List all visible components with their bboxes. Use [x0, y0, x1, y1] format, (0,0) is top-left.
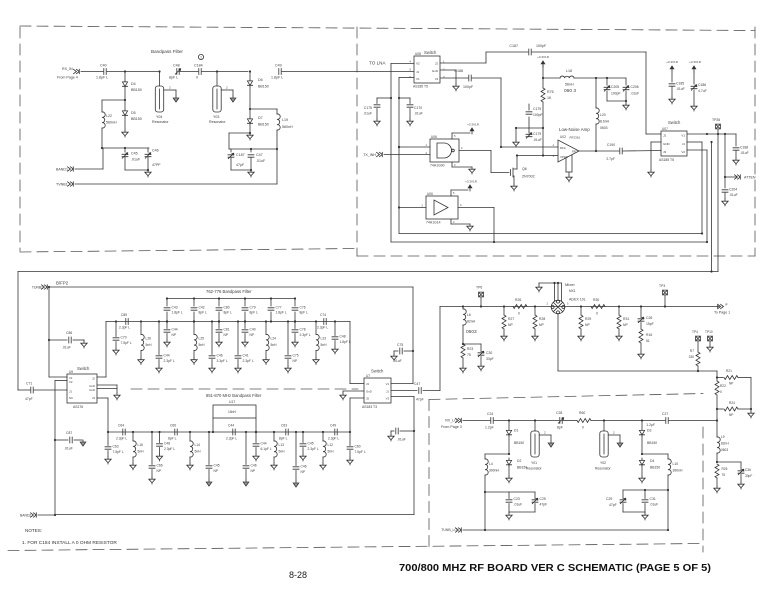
- capacitor C79 8pF L top coupling: [244, 299, 246, 307]
- svg-text:100pF: 100pF: [463, 85, 474, 89]
- svg-text:C185: C185: [676, 82, 684, 86]
- wire J1 branch down to IF return line: [710, 141, 712, 143]
- svg-text:R31: R31: [623, 317, 629, 321]
- svg-text:VPDN: VPDN: [560, 155, 568, 159]
- capacitor C63 7.5pF L shunt: [107, 432, 109, 446]
- svg-text:C46: C46: [301, 465, 307, 469]
- svg-text:47pF: 47pF: [416, 398, 424, 402]
- svg-text:C170: C170: [414, 106, 422, 110]
- svg-text:NP: NP: [623, 323, 628, 327]
- svg-text:R24: R24: [729, 401, 735, 405]
- svg-text:NP: NP: [729, 382, 733, 386]
- svg-text:330: 330: [689, 355, 695, 359]
- svg-text:3.3pF L: 3.3pF L: [217, 359, 228, 363]
- svg-text:BB150: BB150: [258, 123, 269, 127]
- svg-text:J3: J3: [92, 396, 95, 400]
- ground below C23: [508, 512, 510, 513]
- svg-text:V1: V1: [681, 134, 685, 138]
- svg-text:NP: NP: [214, 469, 219, 473]
- capacitor C74 2.3pF series: [324, 319, 326, 325]
- resistor R76 1K: [542, 78, 544, 88]
- svg-text:1.8pF L: 1.8pF L: [172, 311, 183, 315]
- svg-text:BB150: BB150: [258, 85, 269, 89]
- ground below C175: [374, 119, 380, 126]
- wire L22 to C45 node: [101, 128, 103, 148]
- svg-text:C87: C87: [66, 431, 72, 435]
- svg-text:75: 75: [467, 353, 471, 357]
- svg-text:47pF: 47pF: [236, 163, 245, 167]
- dashed border: left edge of LO section: [428, 400, 430, 548]
- svg-text:.01uF: .01uF: [514, 503, 523, 507]
- svg-text:RF2361: RF2361: [570, 136, 581, 140]
- svg-text:.01uF: .01uF: [631, 92, 640, 96]
- svg-text:C45: C45: [214, 464, 220, 468]
- capacitors C205 100pF and C206 .01uF at L18 output: [596, 77, 626, 79]
- inductor L9 82nH 0603: [716, 421, 718, 438]
- capacitor C27 1.2pF: [666, 418, 668, 424]
- capacitor C66 8pF L series: [175, 429, 177, 435]
- wire D6 to node: [249, 87, 251, 109]
- svg-text:RX_IN: RX_IN: [62, 67, 73, 71]
- svg-text:C44: C44: [172, 328, 178, 332]
- svg-text:47pF: 47pF: [25, 397, 33, 401]
- wire LO cap cluster 2 bottom: [623, 511, 645, 513]
- svg-text:C48: C48: [340, 335, 346, 339]
- ground left of C86: [388, 434, 394, 441]
- inductor L23 5nH shunt: [315, 322, 317, 335]
- svg-text:.01uF: .01uF: [729, 193, 738, 197]
- capacitor C189 .01uF at V1: [735, 134, 737, 146]
- pin 2 of Y01 to ground: [539, 434, 551, 436]
- switch U08 AS185 T5: [414, 56, 440, 83]
- wire C187 to U07 pin J2: [532, 51, 646, 53]
- svg-text:L22: L22: [106, 114, 112, 118]
- capacitor C24 1.2pF: [491, 418, 493, 424]
- wire U07 V1 output: [687, 133, 736, 135]
- svg-text:1: 1: [200, 56, 202, 60]
- svg-text:J1: J1: [682, 142, 686, 146]
- svg-text:TP6: TP6: [476, 286, 482, 290]
- svg-text:0: 0: [720, 390, 722, 394]
- svg-text:GnD: GnD: [432, 69, 439, 73]
- svg-text:8pF L: 8pF L: [279, 437, 288, 441]
- dashed border: left edge of bandpass filter section: [19, 27, 21, 251]
- capacitor C204 .01uF on ATTEN node: [724, 177, 726, 188]
- svg-text:C44: C44: [228, 424, 234, 428]
- ground below D5: [124, 117, 126, 130]
- ground at mixer top pins: [536, 285, 542, 292]
- svg-text:U17: U17: [229, 400, 235, 404]
- wire U08 pin J2 to C187 feed line: [440, 62, 486, 64]
- svg-text:2.3pF L: 2.3pF L: [226, 437, 237, 441]
- capacitor C175 .01uF: [390, 97, 392, 99]
- wire 762 filter top coupling rail: [167, 298, 295, 300]
- svg-text:AS183 T3: AS183 T3: [362, 405, 377, 409]
- wire L4 node to TUNB_LO rail: [484, 492, 486, 530]
- svg-text:.01uF: .01uF: [533, 138, 542, 142]
- svg-text:U06: U06: [427, 192, 433, 196]
- svg-text:2N7002: 2N7002: [522, 175, 535, 179]
- svg-text:0: 0: [518, 312, 520, 316]
- svg-text:IF: IF: [725, 303, 728, 307]
- resistor R24 NP: [717, 408, 723, 410]
- svg-text:1.2pF: 1.2pF: [646, 423, 655, 427]
- svg-text:L9: L9: [721, 435, 725, 439]
- ground below R23: [460, 366, 466, 373]
- capacitor C45 .01uF: [124, 148, 126, 152]
- svg-text:V2: V2: [681, 150, 685, 154]
- svg-text:390nH: 390nH: [489, 469, 500, 473]
- svg-text:J1: J1: [386, 390, 389, 394]
- capacitor C71 47pF input: [18, 389, 30, 391]
- capacitor C85 2.3pF series: [126, 319, 128, 325]
- svg-text:82nH: 82nH: [721, 442, 729, 446]
- svg-text:J2: J2: [435, 62, 439, 66]
- resonator Y03: [216, 70, 218, 72]
- wire BAND1 riser to C45 rail: [102, 148, 104, 169]
- svg-text:2.3pF L: 2.3pF L: [164, 359, 175, 363]
- diode D4 BB150: [639, 460, 644, 467]
- svg-text:C187: C187: [236, 153, 245, 157]
- svg-text:J2: J2: [663, 134, 667, 138]
- svg-text:BAND2: BAND2: [20, 514, 31, 518]
- svg-text:MX1: MX1: [569, 289, 576, 293]
- svg-text:74H1G00: 74H1G00: [430, 164, 445, 168]
- svg-text:7.5pF L: 7.5pF L: [355, 450, 366, 454]
- svg-text:060 3: 060 3: [564, 88, 576, 94]
- capacitor C188 100pF: [440, 77, 468, 79]
- capacitor C75 NP shunt: [287, 322, 289, 355]
- svg-text:4.7uF: 4.7uF: [698, 89, 707, 93]
- svg-text:C49: C49: [330, 424, 336, 428]
- svg-text:.01uF: .01uF: [131, 158, 141, 162]
- svg-text:C45: C45: [131, 152, 138, 156]
- resistor R22 0: [716, 378, 718, 382]
- wire D4 cathode to node: [124, 88, 126, 100]
- svg-text:GnD: GnD: [89, 388, 95, 392]
- transistor Q6 2N7002 MOSFET: [511, 168, 518, 177]
- ground below C47: [248, 170, 254, 177]
- svg-text:5nH: 5nH: [195, 450, 202, 454]
- svg-text:NP: NP: [251, 469, 256, 473]
- svg-text:Resonator: Resonator: [595, 467, 612, 471]
- svg-text:NP: NP: [250, 333, 255, 337]
- svg-text:82nH: 82nH: [467, 320, 476, 324]
- svg-text:C46: C46: [251, 464, 257, 468]
- wire rail to LNA section switch U08: [282, 71, 414, 73]
- dashed border: bottom edge of bandpass filter section: [20, 249, 357, 253]
- svg-text:C77: C77: [276, 306, 282, 310]
- wire TVNB1 long run: [75, 183, 277, 185]
- supply pin 5 of U06 to +3.3V1R: [451, 133, 453, 139]
- svg-text:D7: D7: [258, 116, 263, 120]
- svg-text:C179: C179: [533, 107, 541, 111]
- capacitor C78 2.3pF L shunt: [294, 322, 296, 329]
- svg-text:Y03: Y03: [213, 115, 219, 119]
- svg-text:5nH: 5nH: [321, 343, 328, 347]
- svg-text:C31: C31: [650, 497, 656, 501]
- wire L10 node to TUNB_LO rail: [667, 490, 669, 530]
- switch U9 AS176: [67, 374, 97, 403]
- svg-text:C47: C47: [256, 153, 263, 157]
- svg-text:C86: C86: [66, 331, 72, 335]
- svg-text:J3: J3: [435, 77, 439, 81]
- dashed border: right edge of LNA section: [754, 27, 756, 256]
- wire TUNB2 down to switch U9 V1: [48, 287, 50, 377]
- ground at U7 GnD pin: [343, 390, 364, 392]
- capacitor C40 NP shunt: [244, 322, 246, 329]
- svg-text:.01uF: .01uF: [64, 447, 73, 451]
- svg-text:C44: C44: [164, 354, 170, 358]
- svg-text:2.3pF L: 2.3pF L: [243, 359, 254, 363]
- ground below R21/R24 node: [750, 409, 752, 411]
- capacitor C40: [104, 69, 106, 75]
- svg-text:74H1G14: 74H1G14: [426, 221, 441, 225]
- capacitor C64 2.3pF L series: [123, 429, 125, 435]
- svg-text:C44: C44: [261, 442, 267, 446]
- svg-text:RX_LO: RX_LO: [445, 419, 457, 423]
- inductor L16 5nH shunt: [132, 432, 134, 441]
- capacitor C45 NP shunt with long ground tail: [208, 432, 210, 465]
- wire U9 V1 from TUNB2: [49, 376, 67, 378]
- wire U07 pin J2 feed: [646, 133, 661, 135]
- capacitor C47 47pF output: [391, 390, 417, 392]
- ground below C204: [722, 199, 728, 206]
- svg-text:+3.3V1R: +3.3V1R: [465, 180, 478, 184]
- svg-text:.01uF: .01uF: [740, 151, 749, 155]
- svg-text:C206: C206: [631, 85, 639, 89]
- NAND gate U06 74H1G00: [430, 139, 459, 162]
- wire U08 pin V1 control drop: [399, 77, 414, 79]
- svg-text:C71: C71: [26, 382, 32, 386]
- svg-text:C26: C26: [646, 316, 652, 320]
- svg-text:C24: C24: [487, 412, 493, 416]
- svg-text:TP3: TP3: [659, 284, 665, 288]
- capacitor C49 1.8pF: [279, 69, 281, 75]
- wire LO rail C27 to L9 node: [669, 420, 717, 422]
- svg-text:U06: U06: [431, 135, 437, 139]
- dashed border: top edge of LO section: [429, 394, 703, 400]
- wire cluster riser to D7 node: [228, 133, 230, 149]
- svg-text:TP4: TP4: [692, 330, 698, 334]
- svg-text:1.8pF L: 1.8pF L: [96, 76, 108, 80]
- svg-text:R76: R76: [547, 90, 554, 94]
- svg-text:R60: R60: [579, 411, 585, 415]
- wire LO cap cluster 2 top: [623, 489, 668, 491]
- capacitor C45 2.3pF L shunt: [302, 432, 304, 443]
- diode D6 BB150: [249, 70, 251, 72]
- dashed border: bottom edge of sheet sections: [8, 544, 703, 551]
- wire bottom of C45/C46: [125, 169, 148, 171]
- capacitor C187 47pF variable: [230, 149, 232, 152]
- inductor L4 390nH: [485, 453, 509, 455]
- wire LO rail C24 to C28: [494, 420, 559, 422]
- svg-text:8pF L: 8pF L: [169, 76, 178, 80]
- wire U9 J2 riser to 762 filter input: [97, 376, 106, 378]
- svg-text:2.7pF: 2.7pF: [606, 157, 615, 161]
- svg-text:C49: C49: [275, 64, 282, 68]
- svg-text:NP: NP: [293, 359, 298, 363]
- svg-text:BAND1: BAND1: [56, 168, 68, 172]
- svg-text:5nH: 5nH: [271, 343, 278, 347]
- svg-text:J1: J1: [416, 70, 420, 74]
- wire LO cap cluster bottom: [509, 511, 535, 513]
- wire U07 GND pin to ground: [651, 141, 661, 143]
- svg-text:Resonator: Resonator: [152, 120, 169, 124]
- wire LNA output node: [579, 150, 596, 152]
- resistor R31 NP shunt: [618, 305, 620, 307]
- svg-text:U07: U07: [662, 127, 668, 131]
- svg-text:C23: C23: [514, 497, 520, 501]
- svg-text:R22: R22: [720, 384, 726, 388]
- svg-text:.01uF: .01uF: [397, 438, 406, 442]
- svg-text:NP: NP: [172, 333, 177, 337]
- svg-text:2.3pF L: 2.3pF L: [328, 437, 339, 441]
- dashed border: right edge of LO section: [702, 427, 704, 552]
- capacitor C81 NP shunt: [218, 322, 220, 329]
- diode D2 BB150: [506, 460, 511, 467]
- svg-text:TP10: TP10: [705, 330, 713, 334]
- svg-text:BB150: BB150: [514, 441, 524, 445]
- svg-text:2.3pF L: 2.3pF L: [317, 326, 328, 330]
- capacitor C170 .01uF: [398, 97, 400, 99]
- svg-text:0603: 0603: [466, 329, 477, 335]
- wire IF return line across sheet: [18, 271, 718, 273]
- wire U08 pin V2 control drop: [391, 63, 414, 65]
- svg-text:0: 0: [596, 312, 598, 316]
- svg-text:NOTES:: NOTES:: [25, 528, 42, 533]
- capacitor C44 NP shunt: [166, 322, 168, 329]
- ground below C186: [691, 104, 697, 111]
- svg-text:V1: V1: [386, 382, 390, 386]
- svg-text:7.5pF L: 7.5pF L: [113, 450, 124, 454]
- svg-text:.01uF: .01uF: [256, 159, 266, 163]
- ground left of C75: [391, 354, 397, 361]
- capacitor C44 6.1pF L shunt: [255, 432, 257, 443]
- svg-text:+3.3V1R: +3.3V1R: [666, 60, 679, 64]
- capacitor C46 3.3pF L shunt: [211, 322, 213, 355]
- svg-text:5nH: 5nH: [328, 450, 335, 454]
- svg-text:J2: J2: [92, 377, 95, 381]
- svg-text:100pF: 100pF: [533, 113, 543, 117]
- ground below R25: [714, 486, 720, 493]
- svg-text:Y01: Y01: [531, 461, 537, 465]
- svg-text:V3: V3: [386, 397, 390, 401]
- svg-text:1. FOR C184 INSTALL A 0 OHM RE: 1. FOR C184 INSTALL A 0 OHM RESISTOR: [22, 540, 117, 546]
- svg-text:5nH: 5nH: [138, 450, 145, 454]
- svg-text:C41: C41: [243, 354, 249, 358]
- svg-text:NP: NP: [508, 323, 513, 327]
- diode D1 BB150: [508, 419, 510, 421]
- svg-text:C205: C205: [611, 85, 619, 89]
- svg-text:To Page 1: To Page 1: [714, 311, 730, 315]
- capacitor C76 8pF L top coupling: [294, 299, 296, 307]
- wire TUNB2 riser to U7 V1: [412, 287, 414, 384]
- wire R76 node to LNA VPDN: [542, 128, 544, 156]
- svg-text:NP: NP: [224, 333, 229, 337]
- inductor L13 5nH shunt: [273, 432, 275, 441]
- inductor L14 5nH shunt: [189, 432, 191, 441]
- svg-text:L26: L26: [146, 337, 152, 341]
- svg-text:100pF: 100pF: [611, 92, 621, 96]
- svg-text:C46: C46: [217, 354, 223, 358]
- ground below Q6 source: [511, 184, 517, 191]
- svg-text:TUNB_LO: TUNB_LO: [441, 528, 457, 532]
- svg-text:0: 0: [582, 426, 584, 430]
- wire 762 filter main rail: [106, 321, 350, 323]
- ground right of C86: [81, 341, 87, 348]
- svg-text:C45: C45: [308, 442, 314, 446]
- capacitor C190 2.7pF: [596, 150, 619, 152]
- capacitor C42 8pF L top coupling: [193, 299, 195, 307]
- svg-text:1K: 1K: [547, 96, 552, 100]
- resistor R27 NP shunt: [503, 305, 505, 307]
- svg-text:0603: 0603: [600, 126, 608, 130]
- svg-text:U02: U02: [560, 135, 566, 139]
- svg-text:C80: C80: [224, 306, 230, 310]
- svg-text:.01uF: .01uF: [650, 503, 659, 507]
- wire 762 filter output to switch U7: [349, 322, 351, 384]
- svg-text:C70: C70: [121, 336, 127, 340]
- dashed border: divider between filter and LNA sections: [356, 27, 358, 256]
- resistor R60 0 series: [577, 419, 591, 423]
- capacitor C46 NP shunt with long ground tail: [295, 432, 297, 466]
- svg-text:2.3pF L: 2.3pF L: [300, 333, 311, 337]
- svg-text:NP: NP: [539, 323, 544, 327]
- capacitor C86 .01uF on TUNB2: [48, 339, 50, 341]
- svg-text:15nH: 15nH: [228, 410, 237, 414]
- wire BPF output riser to mixer rail: [439, 307, 441, 391]
- note reference circle 1 above C184: [198, 54, 203, 59]
- svg-text:L24: L24: [271, 337, 277, 341]
- svg-text:L10: L10: [673, 462, 679, 466]
- capacitor C186 4.7uF variable: [691, 85, 697, 90]
- wire U7 V3 to band control: [391, 396, 414, 398]
- svg-text:1.8pF L: 1.8pF L: [276, 311, 287, 315]
- svg-text:D4: D4: [131, 82, 136, 86]
- inductor L18 56nH 0603: [543, 77, 560, 79]
- capacitor C77 1.8pF L top coupling: [270, 299, 272, 307]
- svg-text:D2: D2: [517, 459, 521, 463]
- svg-text:TP26: TP26: [712, 118, 720, 122]
- wire mixer LO feed line: [558, 370, 717, 372]
- svg-text:TO LNA: TO LNA: [369, 61, 386, 66]
- switch U7 AS183 T3: [364, 378, 391, 403]
- pin 2 of Y02 to ground: [608, 434, 620, 436]
- svg-text:47PF: 47PF: [152, 163, 161, 167]
- capacitor C26 15pF shunt: [640, 305, 642, 307]
- capacitor C23 .01uF: [508, 492, 510, 499]
- ground below C178 node: [515, 128, 517, 140]
- supply pin 5 of inverter to +3.3V1R: [450, 190, 452, 196]
- wire BAND2 rail along bottom: [55, 514, 414, 516]
- svg-text:U7: U7: [366, 374, 370, 378]
- svg-text:D3: D3: [647, 429, 651, 433]
- ground right of C87: [80, 440, 86, 446]
- capacitor C29 47pF variable: [622, 490, 624, 499]
- svg-text:B/FP2: B/FP2: [56, 281, 69, 286]
- node +3.3V1R at C186: [692, 66, 696, 72]
- capacitor C178 100pF: [516, 127, 543, 129]
- inductor L20 8.6nH 0603 collector feed: [595, 78, 597, 108]
- svg-text:ADEX 10L: ADEX 10L: [569, 298, 586, 302]
- ground pin 3 of U06: [451, 162, 453, 167]
- wire 851 filter main rail: [108, 431, 350, 433]
- wire rail C184 to D6: [202, 71, 248, 73]
- svg-text:C79: C79: [250, 306, 256, 310]
- ground below C46: [145, 170, 151, 177]
- svg-text:R29: R29: [585, 317, 591, 321]
